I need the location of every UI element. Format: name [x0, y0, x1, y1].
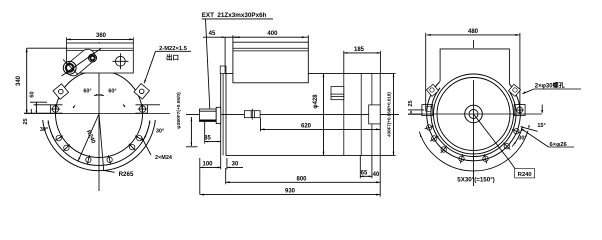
svg-text:45: 45	[209, 31, 216, 37]
svg-text:85: 85	[204, 136, 211, 142]
right foot left	[422, 105, 433, 116]
hub	[465, 105, 483, 123]
svg-text:2×M24: 2×M24	[155, 155, 173, 161]
svg-text:30°: 30°	[40, 127, 48, 133]
svg-text:EXT 21Zx3mx30Px6h: EXT 21Zx3mx30Px6h	[202, 12, 267, 19]
rear housing line	[360, 74, 362, 156]
30deg arc right	[144, 120, 150, 139]
svg-text:60°: 60°	[108, 89, 116, 95]
box gasket band	[67, 47, 134, 49]
terminal box side view	[233, 42, 308, 83]
30deg pads with phi30 holes	[426, 84, 438, 96]
svg-text:360: 360	[96, 33, 107, 39]
dim 60	[35, 102, 37, 114]
left view flange bolt holes	[56, 136, 61, 141]
svg-text:2×φ30螺孔: 2×φ30螺孔	[535, 81, 565, 89]
body circle	[431, 88, 516, 157]
inner circle 2	[437, 78, 510, 151]
dim phi430F7	[393, 74, 395, 156]
svg-text:30°: 30°	[518, 136, 526, 142]
right view horizontal centerline	[408, 113, 542, 115]
30deg arc left	[48, 120, 54, 139]
flange plate line	[371, 74, 373, 156]
dim 85	[205, 141, 221, 143]
svg-text:800: 800	[296, 176, 307, 182]
left view body circle	[56, 71, 143, 158]
flange outer circle	[427, 82, 521, 161]
radial line to R240	[474, 114, 510, 161]
dim phi428	[323, 74, 325, 156]
dim 100	[200, 166, 221, 168]
crosshair hole in box	[116, 56, 126, 66]
terminal box mask	[440, 48, 509, 80]
svg-text:R240: R240	[518, 172, 532, 178]
60deg 60deg labels	[94, 94, 104, 97]
bracket bump	[220, 66, 226, 74]
plate hole small (hatched)	[89, 54, 97, 62]
dim 360	[67, 38, 134, 40]
svg-text:φ428: φ428	[313, 94, 319, 109]
5X30 arc dim	[419, 131, 528, 171]
middle view centerline	[186, 113, 399, 115]
svg-text:65: 65	[361, 170, 368, 176]
dim 185	[344, 52, 381, 54]
small junction box on body	[331, 87, 344, 100]
svg-text:25: 25	[23, 118, 29, 124]
small down arrow onto centerline	[541, 105, 543, 113]
svg-text:60: 60	[30, 91, 36, 97]
gland plate tilted	[63, 46, 98, 78]
terminal box outline	[440, 49, 509, 84]
R265 leader	[99, 114, 104, 170]
svg-text:5X30°(=150°): 5X30°(=150°)	[457, 177, 494, 184]
dim 930	[200, 194, 380, 196]
svg-text:25: 25	[408, 100, 414, 106]
shaft collar	[216, 107, 221, 123]
plate diagonal centerline	[62, 49, 102, 77]
svg-text:930: 930	[285, 189, 296, 195]
motor body rectangle	[226, 74, 380, 156]
svg-text:30°: 30°	[156, 129, 164, 135]
left view bolt circle arc	[49, 125, 149, 166]
dim 30	[218, 167, 221, 169]
bearing bracket face lines	[220, 74, 222, 156]
dim 25	[30, 109, 32, 114]
dim 25 right view	[408, 109, 424, 111]
R240 radial line and label	[78, 114, 99, 161]
dim 800	[226, 181, 381, 183]
grease plug on centerline	[244, 111, 260, 118]
left view vertical centerline	[98, 42, 100, 191]
gland boss right (M22)	[134, 84, 149, 99]
spline shaft	[200, 109, 217, 122]
60deg arc arrowheads on circle	[73, 105, 76, 109]
dim 65	[360, 175, 372, 177]
left foot pad left	[51, 105, 63, 113]
svg-text:40: 40	[373, 172, 380, 178]
svg-text:φ380F7(+0.05/0): φ380F7(+0.05/0)	[176, 92, 182, 129]
svg-text:400: 400	[267, 31, 278, 37]
plate hole big (hatched)	[63, 61, 76, 74]
svg-text:340: 340	[16, 75, 22, 86]
dim 620	[261, 128, 381, 130]
dim 340	[26, 48, 28, 114]
left view horizontal centerline	[24, 113, 170, 115]
R240 boxed label	[510, 161, 517, 170]
svg-text:480: 480	[468, 29, 479, 35]
left foot pad right	[136, 105, 148, 113]
svg-text:出口: 出口	[166, 53, 179, 62]
right foot right	[514, 105, 525, 116]
inner circle 1	[434, 74, 514, 154]
frame section line	[343, 74, 345, 156]
bolt holes 6xphi26	[427, 125, 432, 130]
svg-text:620: 620	[301, 123, 312, 129]
svg-text:30: 30	[232, 161, 239, 167]
pad extension lines	[34, 104, 51, 106]
left view flange outer arc	[43, 120, 156, 171]
gland boss left (M22)	[53, 84, 68, 99]
dim 45	[225, 36, 233, 38]
svg-text:60°: 60°	[83, 89, 91, 95]
terminal box (left view)	[67, 43, 134, 73]
minus15 radial extension	[521, 127, 538, 132]
svg-text:R265: R265	[119, 171, 134, 178]
rear hub	[369, 105, 381, 124]
svg-text:100: 100	[202, 161, 213, 167]
svg-text:430F7(+0.068/+0.018): 430F7(+0.068/+0.018)	[387, 92, 392, 137]
dim 400	[233, 36, 308, 38]
svg-text:15°: 15°	[537, 123, 545, 129]
svg-text:185: 185	[354, 47, 365, 53]
dim 480	[427, 34, 520, 36]
right view vertical centerline	[473, 40, 475, 186]
